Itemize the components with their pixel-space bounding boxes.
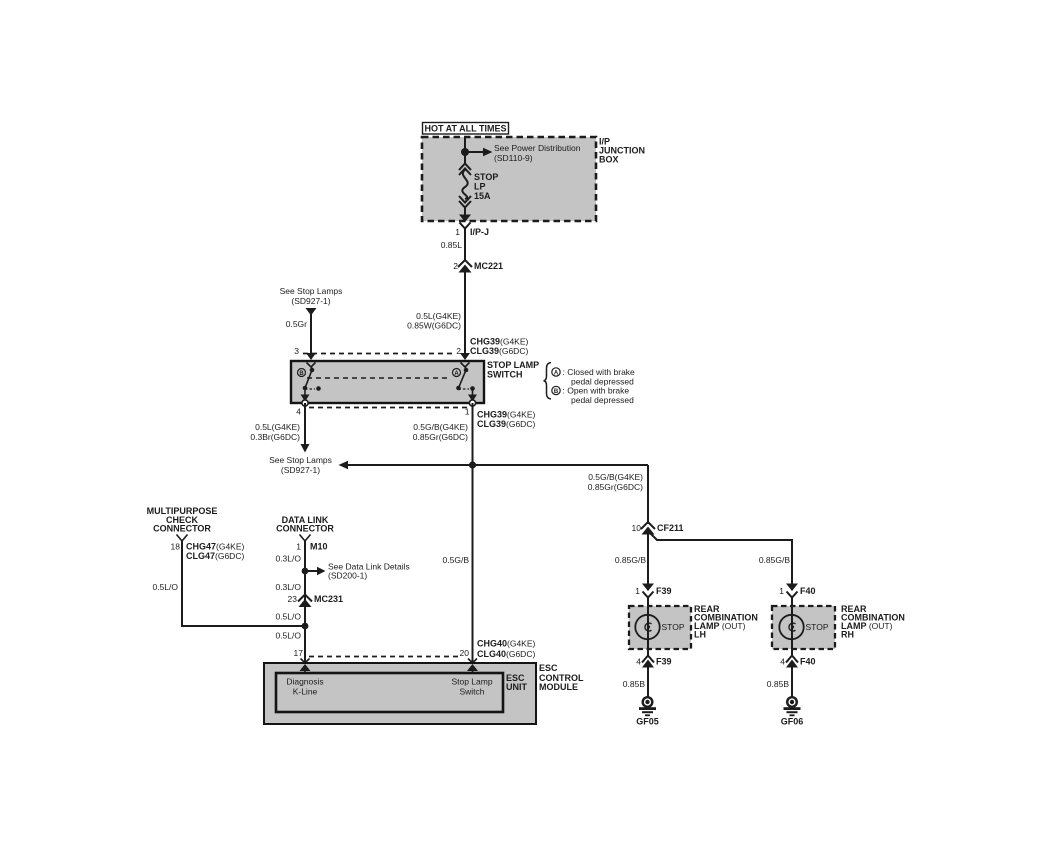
svg-text:1: 1 xyxy=(296,542,301,552)
label Diagnosis K-Line xyxy=(286,677,323,697)
svg-text:Switch: Switch xyxy=(459,687,484,697)
wire branch to RH lamp xyxy=(648,531,792,588)
svg-text:A: A xyxy=(554,370,559,376)
switch B contact xyxy=(298,368,321,402)
label 1 M10 xyxy=(296,542,327,552)
label CHG39 CLG39 bottom xyxy=(477,410,536,430)
svg-text:MODULE: MODULE xyxy=(539,682,578,692)
connector CF211 pin 10 xyxy=(632,522,684,535)
connector pins 4 and 1 out of switch xyxy=(296,400,475,417)
label ESC UNIT xyxy=(506,673,527,692)
svg-text:CONNECTOR: CONNECTOR xyxy=(276,524,334,534)
label fuse STOP LP 15A xyxy=(474,172,498,201)
connector arrows inside ESC box xyxy=(300,664,479,671)
svg-text:1: 1 xyxy=(465,407,470,417)
wire 0.5L/O multipurpose branch xyxy=(152,540,305,626)
label STOP LAMP SWITCH xyxy=(487,360,539,380)
label MULTIPURPOSE CHECK CONNECTOR xyxy=(147,506,218,534)
svg-text:1: 1 xyxy=(635,586,640,596)
svg-text:20: 20 xyxy=(460,648,470,658)
svg-text:10: 10 xyxy=(632,523,642,533)
svg-text:0.5G/B(G4KE): 0.5G/B(G4KE) xyxy=(413,422,468,432)
label I/P JUNCTION BOX xyxy=(599,137,645,165)
svg-text:CHG39(G4KE): CHG39(G4KE) xyxy=(477,410,536,420)
svg-text:0.85L: 0.85L xyxy=(441,240,463,250)
connector pins 17 and 20 into ESC xyxy=(294,648,477,663)
fuse STOP LP 15A xyxy=(459,164,471,216)
svg-text:pedal depressed: pedal depressed xyxy=(571,395,634,405)
svg-text:2: 2 xyxy=(453,261,458,271)
svg-text:0.85G/B: 0.85G/B xyxy=(615,555,647,565)
svg-text:0.85Gr(G6DC): 0.85Gr(G6DC) xyxy=(588,482,643,492)
connector MC231 pin 23 xyxy=(288,594,343,607)
svg-text:UNIT: UNIT xyxy=(506,682,527,692)
ground GF06 xyxy=(781,696,804,727)
svg-text:CLG39(G6DC): CLG39(G6DC) xyxy=(477,419,535,429)
connector pins 3 and 2 into switch xyxy=(294,346,470,360)
svg-text:F40: F40 xyxy=(800,586,816,596)
svg-text:0.3L/O: 0.3L/O xyxy=(275,554,301,564)
node K-line junction xyxy=(302,623,309,630)
svg-text:0.5Gr: 0.5Gr xyxy=(286,319,307,329)
svg-text:CHG39(G4KE): CHG39(G4KE) xyxy=(470,337,529,347)
svg-text:See Stop Lamps: See Stop Lamps xyxy=(280,286,343,296)
label 0.5L 0.3Br wire xyxy=(250,422,300,442)
svg-text:0.5L/O: 0.5L/O xyxy=(275,631,301,641)
svg-text:See Power Distribution: See Power Distribution xyxy=(494,143,581,153)
label HOT AT ALL TIMES xyxy=(423,123,509,135)
label REAR COMBINATION LAMP LH xyxy=(694,604,758,640)
svg-text:BOX: BOX xyxy=(599,155,619,165)
svg-text:F40: F40 xyxy=(800,657,816,667)
svg-text:17: 17 xyxy=(294,648,304,658)
connector chevrons inside switch box xyxy=(307,363,470,371)
svg-text:0.85Gr(G6DC): 0.85Gr(G6DC) xyxy=(413,432,468,442)
wire switch pin 1 down to ESC pin 20 xyxy=(472,403,474,663)
label ESC CONTROL MODULE xyxy=(539,663,584,692)
svg-text:0.5G/B(G4KE): 0.5G/B(G4KE) xyxy=(588,472,643,482)
svg-text:1: 1 xyxy=(455,227,460,237)
wire through LH lamp xyxy=(647,597,649,657)
ESC unit box xyxy=(276,673,503,712)
node switch output junction xyxy=(469,461,476,468)
svg-text:CLG39(G6DC): CLG39(G6DC) xyxy=(470,346,528,356)
svg-text:0.5L/O: 0.5L/O xyxy=(152,582,178,592)
label 0.5L / 0.85W wire xyxy=(407,311,461,331)
ground GF05 xyxy=(636,696,659,727)
connector F40 pin 1 xyxy=(779,584,815,598)
switch A contact xyxy=(453,368,478,402)
svg-text:LP: LP xyxy=(474,182,486,192)
wire battery feed xyxy=(464,136,466,163)
rear combination lamp LH box xyxy=(629,606,691,649)
svg-text:15A: 15A xyxy=(474,191,491,201)
node data link junction xyxy=(302,568,309,575)
label 0.5G/B 0.85Gr wire xyxy=(413,422,468,442)
label DATA LINK CONNECTOR xyxy=(276,515,334,534)
connector MC221 pin 2 xyxy=(453,260,503,273)
svg-text:CHG40(G4KE): CHG40(G4KE) xyxy=(477,639,536,649)
svg-text:0.85B: 0.85B xyxy=(623,679,646,689)
label 0.5G/B 0.85Gr right xyxy=(588,472,643,492)
svg-text:MC221: MC221 xyxy=(474,261,503,271)
svg-text:: Open with brake: : Open with brake xyxy=(563,386,630,396)
svg-text:SWITCH: SWITCH xyxy=(487,370,523,380)
wire through RH lamp xyxy=(791,597,793,657)
dashed link between switch halves xyxy=(307,377,451,379)
arrow to See Data Link Details xyxy=(305,562,410,581)
svg-text:F39: F39 xyxy=(656,586,672,596)
svg-text:(SD927-1): (SD927-1) xyxy=(291,296,330,306)
svg-text:CHG47(G4KE): CHG47(G4KE) xyxy=(186,542,245,552)
label REAR COMBINATION LAMP RH xyxy=(841,604,905,640)
svg-text:STOP: STOP xyxy=(474,172,498,182)
legend A closed xyxy=(552,367,635,387)
wire 0.85L xyxy=(441,228,465,261)
svg-text:0.5L(G4KE): 0.5L(G4KE) xyxy=(255,422,300,432)
svg-text:B: B xyxy=(299,371,304,377)
node power junction xyxy=(461,148,469,156)
svg-text:1: 1 xyxy=(779,586,784,596)
svg-text:K-Line: K-Line xyxy=(293,687,318,697)
svg-text:See Stop Lamps: See Stop Lamps xyxy=(269,455,332,465)
svg-text:(SD110-9): (SD110-9) xyxy=(494,153,533,163)
I/P junction box xyxy=(422,137,596,221)
wire switch pin 4 to See Stop Lamps xyxy=(269,403,332,475)
svg-text:CF211: CF211 xyxy=(657,523,684,533)
label CHG39 CLG39 top xyxy=(470,337,529,357)
svg-text:CONNECTOR: CONNECTOR xyxy=(153,524,211,534)
label Stop Lamp Switch xyxy=(451,677,492,697)
svg-text:4: 4 xyxy=(780,657,785,667)
wire 0.85B RH xyxy=(767,666,792,697)
svg-text:4: 4 xyxy=(296,407,301,417)
wire CF211 to F39 xyxy=(647,534,649,588)
wire data link to ESC pin 17 xyxy=(304,540,306,663)
bulb LH xyxy=(635,615,685,639)
connector fork multipurpose xyxy=(177,535,188,542)
svg-text:0.85B: 0.85B xyxy=(767,679,790,689)
svg-text:STOP LAMP: STOP LAMP xyxy=(487,360,539,370)
svg-text:GF06: GF06 xyxy=(781,717,804,727)
svg-text:(SD927-1): (SD927-1) xyxy=(281,465,320,475)
svg-text:RH: RH xyxy=(841,630,854,640)
triangle from See Stop Lamps xyxy=(280,286,343,316)
legend brace xyxy=(544,363,552,400)
svg-text:I/P-J: I/P-J xyxy=(470,227,489,237)
svg-text:0.5L/O: 0.5L/O xyxy=(275,612,301,622)
svg-text:ESC: ESC xyxy=(539,663,558,673)
connector fork data link xyxy=(300,535,311,542)
stop lamp switch box xyxy=(291,361,484,403)
svg-text:0.5L(G4KE): 0.5L(G4KE) xyxy=(416,311,461,321)
arrow to See Power Distribution xyxy=(465,143,581,163)
connector I/P-J pin 1 xyxy=(455,215,489,238)
bulb RH xyxy=(779,615,829,639)
svg-text:HOT AT ALL TIMES: HOT AT ALL TIMES xyxy=(425,124,507,134)
connector F39 pin 4 xyxy=(636,656,671,668)
connector F40 pin 4 xyxy=(780,656,815,668)
rear combination lamp RH box xyxy=(772,606,835,649)
legend B open xyxy=(552,386,634,406)
svg-text:CLG47(G6DC): CLG47(G6DC) xyxy=(186,551,244,561)
svg-text:M10: M10 xyxy=(310,542,328,552)
svg-text:(SD200-1): (SD200-1) xyxy=(328,571,367,581)
svg-text:23: 23 xyxy=(288,594,298,604)
svg-text:3: 3 xyxy=(294,346,299,356)
wire horizontal to rear lamps xyxy=(339,461,649,524)
svg-text:4: 4 xyxy=(636,657,641,667)
svg-text:0.3Br(G6DC): 0.3Br(G6DC) xyxy=(250,432,300,442)
svg-text:18: 18 xyxy=(171,542,181,552)
svg-text:Diagnosis: Diagnosis xyxy=(286,677,323,687)
svg-text:0.85G/B: 0.85G/B xyxy=(759,555,791,565)
svg-text:0.3L/O: 0.3L/O xyxy=(275,582,301,592)
ESC control module box xyxy=(264,663,536,724)
svg-text:STOP: STOP xyxy=(806,622,829,632)
svg-text:Stop Lamp: Stop Lamp xyxy=(451,677,492,687)
label CHG40 CLG40 xyxy=(477,639,536,660)
svg-text:GF05: GF05 xyxy=(636,717,659,727)
connector F39 pin 1 xyxy=(635,584,671,598)
wires into ESC unit xyxy=(305,668,473,673)
svg-text:LH: LH xyxy=(694,630,706,640)
svg-text:2: 2 xyxy=(456,346,461,356)
svg-text:0.5G/B: 0.5G/B xyxy=(443,555,470,565)
svg-text:CLG40(G6DC): CLG40(G6DC) xyxy=(477,649,535,659)
svg-text:F39: F39 xyxy=(656,657,672,667)
svg-text:STOP: STOP xyxy=(662,622,685,632)
svg-text:B: B xyxy=(554,389,559,395)
svg-text:A: A xyxy=(454,371,459,377)
wire 0.5Gr xyxy=(286,314,311,356)
label 18 CHG47 CLG47 xyxy=(171,542,245,562)
svg-text:: Closed with brake: : Closed with brake xyxy=(563,367,636,377)
wire 0.85B LH xyxy=(623,666,648,697)
svg-text:0.85W(G6DC): 0.85W(G6DC) xyxy=(407,321,461,331)
wire MC221 to stop lamp switch pin 2 xyxy=(464,271,466,356)
svg-text:MC231: MC231 xyxy=(314,594,343,604)
